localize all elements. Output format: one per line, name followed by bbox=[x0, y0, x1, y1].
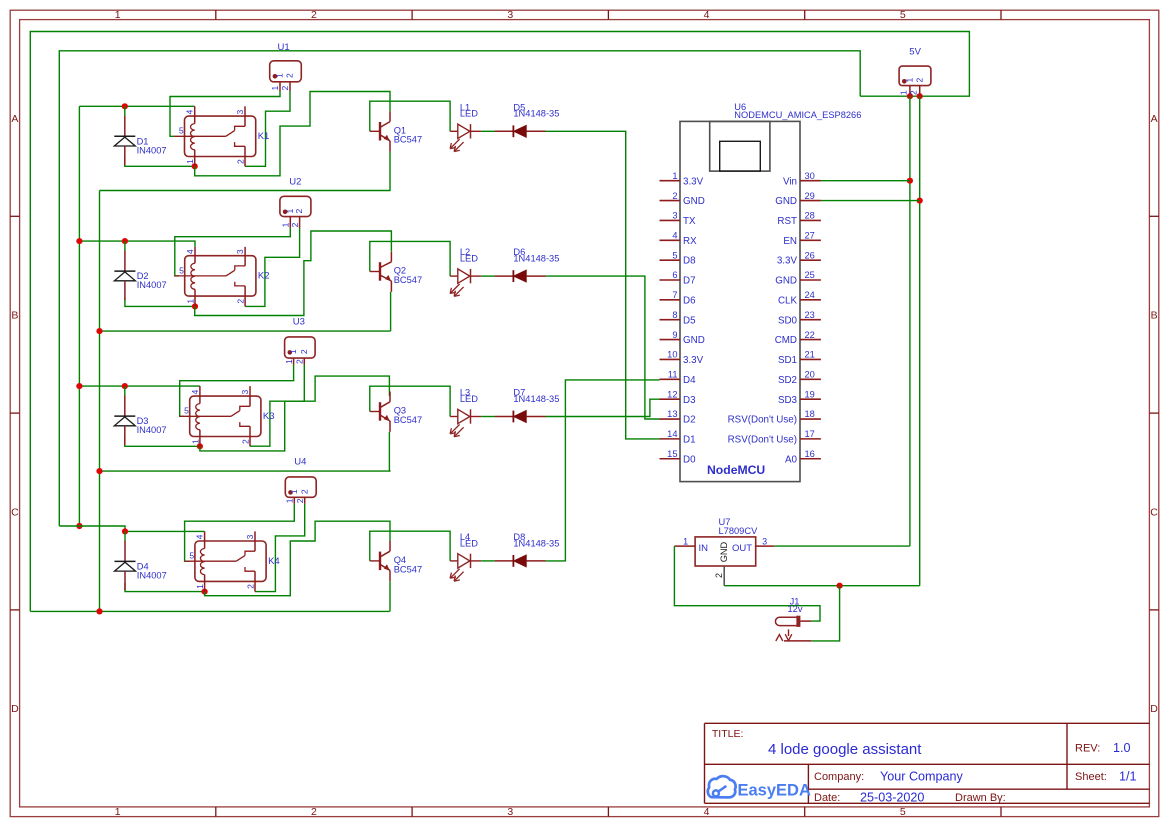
junction relay K1 pin1 bbox=[192, 163, 198, 169]
svg-text:SD3: SD3 bbox=[778, 395, 798, 406]
wire relay coil supply bus bbox=[78, 106, 80, 526]
svg-text:1: 1 bbox=[115, 9, 121, 21]
junction relay K2 pin1 bbox=[192, 303, 198, 309]
wire transistor Q4 base loop to LED L4 bbox=[370, 531, 450, 561]
wire LED L4 / diode D8 to NodeMCU bbox=[546, 380, 660, 561]
svg-text:U1: U1 bbox=[278, 42, 290, 53]
pin 1 IN bbox=[674, 545, 695, 547]
pin 8 D5 bbox=[660, 319, 681, 321]
relay K1 bbox=[174, 106, 269, 166]
svg-text:6: 6 bbox=[672, 270, 677, 280]
svg-text:RST: RST bbox=[777, 216, 797, 227]
svg-text:5: 5 bbox=[179, 265, 184, 275]
svg-text:8: 8 bbox=[672, 310, 677, 320]
svg-text:U3: U3 bbox=[293, 316, 305, 327]
wire diode D1 anode to relay pin1 bbox=[125, 158, 195, 166]
svg-text:B: B bbox=[1151, 310, 1158, 322]
svg-text:1: 1 bbox=[683, 536, 688, 546]
pin 25 GND bbox=[800, 279, 821, 281]
wire 5V upper rail to channel 1 bbox=[59, 51, 860, 526]
svg-text:15: 15 bbox=[667, 449, 677, 459]
junction diode D4 cathode bbox=[122, 528, 128, 534]
title block bbox=[705, 723, 1150, 804]
EasyEDA logo bbox=[708, 776, 811, 799]
svg-text:3: 3 bbox=[240, 390, 250, 395]
svg-text:K1: K1 bbox=[258, 131, 270, 142]
svg-text:RX: RX bbox=[683, 236, 697, 247]
junction coil bus channel 3 bbox=[76, 383, 82, 389]
svg-text:9: 9 bbox=[672, 330, 677, 340]
svg-text:2: 2 bbox=[914, 78, 924, 83]
svg-text:B: B bbox=[11, 310, 18, 322]
connector U1 bbox=[270, 42, 302, 91]
svg-text:10: 10 bbox=[667, 350, 677, 360]
pin 1 3.3V bbox=[660, 180, 681, 182]
svg-text:18: 18 bbox=[805, 409, 815, 419]
svg-text:5V: 5V bbox=[909, 46, 921, 57]
wire emitter return rail channel 1 bbox=[100, 190, 391, 192]
svg-text:1: 1 bbox=[195, 584, 205, 589]
svg-text:A: A bbox=[1151, 113, 1158, 125]
svg-text:D6: D6 bbox=[683, 295, 696, 306]
wire header U4 pin2 to relay K4 pin2 bbox=[255, 504, 305, 592]
IC U6 NODEMCU_AMICA_ESP8266 bbox=[660, 102, 862, 482]
wire transistor Q2 emitter down bbox=[390, 292, 392, 331]
svg-text:1: 1 bbox=[899, 90, 909, 95]
svg-text:4: 4 bbox=[195, 534, 205, 539]
svg-text:D8: D8 bbox=[683, 256, 696, 267]
svg-text:1N4148-35: 1N4148-35 bbox=[513, 394, 559, 404]
svg-text:4: 4 bbox=[704, 9, 710, 21]
wire relay K2 pin1 to transistor Q2 collector bbox=[195, 231, 392, 316]
svg-text:4: 4 bbox=[672, 230, 677, 240]
wire transistor Q3 base loop to LED L3 bbox=[370, 386, 450, 416]
wire header U2 pin1 to relay K2 pin5 bbox=[175, 228, 290, 276]
svg-text:2: 2 bbox=[299, 489, 309, 494]
pin 7 D6 bbox=[660, 299, 681, 301]
svg-text:RSV(Don't Use): RSV(Don't Use) bbox=[728, 415, 797, 426]
pin 18 RSV(Don't Use) bbox=[800, 418, 821, 420]
svg-text:12: 12 bbox=[667, 389, 677, 399]
svg-text:Vin: Vin bbox=[783, 176, 797, 187]
wire U7 OUT to 5V rail bbox=[774, 545, 910, 547]
junction relay K3 pin1 bbox=[197, 443, 203, 449]
svg-text:LED: LED bbox=[460, 538, 478, 548]
junction relay K4 pin1 bbox=[202, 589, 208, 595]
wire NodeMCU Vin pin30 bbox=[821, 180, 910, 182]
svg-text:2: 2 bbox=[290, 222, 300, 227]
svg-text:4: 4 bbox=[704, 806, 710, 818]
pin 2 GND bbox=[723, 566, 725, 586]
svg-text:28: 28 bbox=[805, 211, 815, 221]
wire header U1 pin2 to relay K1 pin2 bbox=[245, 91, 290, 166]
svg-text:1/1: 1/1 bbox=[1119, 770, 1137, 784]
LED L4 bbox=[450, 532, 495, 581]
svg-text:2: 2 bbox=[241, 439, 251, 444]
svg-text:1: 1 bbox=[284, 359, 294, 364]
pin 21 SD1 bbox=[800, 358, 821, 360]
svg-text:IN4007: IN4007 bbox=[137, 425, 167, 435]
pin 9 GND bbox=[660, 339, 681, 341]
svg-text:2: 2 bbox=[236, 159, 246, 164]
wire coil supply to relay K1 pin4 / diode D1 bbox=[79, 105, 194, 107]
svg-text:5: 5 bbox=[189, 551, 194, 561]
svg-text:D2: D2 bbox=[683, 415, 696, 426]
diode D3 IN4007 bbox=[114, 386, 166, 445]
pin 4 RX bbox=[660, 239, 681, 241]
svg-text:25-03-2020: 25-03-2020 bbox=[860, 790, 924, 804]
svg-text:NODEMCU_AMICA_ESP8266: NODEMCU_AMICA_ESP8266 bbox=[734, 110, 861, 120]
connector J1 12v barrel jack bbox=[775, 596, 811, 641]
svg-text:2: 2 bbox=[672, 191, 677, 201]
pin 11 D4 bbox=[660, 378, 681, 380]
svg-text:NodeMCU: NodeMCU bbox=[707, 463, 765, 477]
svg-text:D4: D4 bbox=[683, 375, 696, 386]
svg-text:1: 1 bbox=[270, 86, 280, 91]
transistor Q4 BC547 NPN bbox=[370, 541, 422, 581]
svg-text:4 lode google assistant: 4 lode google assistant bbox=[768, 741, 922, 758]
pin 19 SD3 bbox=[800, 398, 821, 400]
relay K2 bbox=[174, 247, 269, 307]
svg-text:5: 5 bbox=[179, 126, 184, 136]
svg-text:13: 13 bbox=[667, 409, 677, 419]
svg-text:5: 5 bbox=[184, 406, 189, 416]
svg-text:A: A bbox=[11, 113, 18, 125]
wire header U2 pin2 to relay K2 pin2 bbox=[245, 228, 300, 307]
connector U4 bbox=[285, 457, 317, 504]
wire header U4 pin1 to relay K4 pin5 bbox=[185, 504, 295, 561]
svg-text:3: 3 bbox=[507, 806, 513, 818]
diode D8 1N4148-35 bbox=[495, 532, 559, 567]
svg-text:16: 16 bbox=[805, 449, 815, 459]
wire U7 IN to J1 tip bbox=[674, 546, 820, 621]
pin 29 GND bbox=[800, 200, 821, 202]
pin 6 D7 bbox=[660, 279, 681, 281]
junction 5V header pin2 bbox=[917, 93, 923, 99]
svg-text:11: 11 bbox=[668, 370, 678, 380]
svg-text:1: 1 bbox=[288, 349, 298, 354]
diode D5 1N4148-35 bbox=[495, 102, 559, 137]
svg-text:19: 19 bbox=[805, 389, 815, 399]
wire relay K3 pin1 to transistor Q3 collector bbox=[200, 376, 390, 451]
svg-text:LED: LED bbox=[460, 394, 478, 404]
svg-text:SD2: SD2 bbox=[778, 375, 797, 386]
svg-text:CLK: CLK bbox=[778, 295, 798, 306]
wire coil supply to relay K4 pin4 / diode D4 bbox=[59, 526, 204, 531]
svg-text:K4: K4 bbox=[268, 556, 280, 567]
svg-text:1.0: 1.0 bbox=[1113, 741, 1131, 755]
svg-text:CMD: CMD bbox=[775, 335, 797, 346]
pin 12 D3 bbox=[660, 398, 681, 400]
svg-text:3: 3 bbox=[672, 211, 677, 221]
svg-text:29: 29 bbox=[805, 191, 815, 201]
svg-text:2: 2 bbox=[295, 359, 305, 364]
svg-text:Sheet:: Sheet: bbox=[1075, 771, 1107, 783]
svg-text:1: 1 bbox=[190, 439, 200, 444]
svg-text:2: 2 bbox=[285, 73, 295, 78]
svg-text:D3: D3 bbox=[683, 395, 696, 406]
svg-text:2: 2 bbox=[280, 86, 290, 91]
svg-text:IN4007: IN4007 bbox=[137, 570, 167, 580]
svg-text:U2: U2 bbox=[289, 177, 301, 188]
svg-text:17: 17 bbox=[805, 429, 815, 439]
svg-text:LED: LED bbox=[460, 254, 478, 264]
svg-text:12v: 12v bbox=[788, 604, 803, 614]
diode D1 IN4007 bbox=[114, 106, 166, 165]
junction GND pin29 bbox=[917, 198, 923, 204]
junction Vin bbox=[907, 178, 913, 184]
LED L1 bbox=[450, 102, 495, 151]
wire 5V to Vin and U7 OUT bbox=[909, 96, 911, 546]
pin 5 D8 bbox=[660, 259, 681, 261]
svg-text:Drawn By:: Drawn By: bbox=[955, 792, 1006, 804]
LED L2 bbox=[450, 247, 495, 296]
wire transistor Q3 emitter down bbox=[388, 432, 390, 471]
svg-text:GND: GND bbox=[719, 541, 729, 562]
svg-text:IN: IN bbox=[699, 543, 709, 554]
svg-text:5: 5 bbox=[672, 250, 677, 260]
svg-text:14: 14 bbox=[667, 429, 677, 439]
svg-text:BC547: BC547 bbox=[394, 415, 422, 425]
svg-text:TITLE:: TITLE: bbox=[712, 728, 744, 740]
junction ground bus / bottom rail bbox=[96, 608, 102, 614]
wire emitter return rail channel 3 bbox=[100, 470, 391, 472]
svg-text:RSV(Don't Use): RSV(Don't Use) bbox=[728, 434, 797, 445]
pin 10 3.3V bbox=[660, 358, 681, 360]
svg-text:OUT: OUT bbox=[732, 543, 752, 554]
transistor Q1 BC547 NPN bbox=[370, 111, 422, 151]
wire coil supply to relay K3 pin4 / diode D3 bbox=[79, 385, 199, 387]
svg-text:K2: K2 bbox=[258, 271, 270, 282]
junction diode D2 cathode bbox=[122, 238, 128, 244]
junction U7 GND / J1 sleeve bbox=[837, 583, 843, 589]
pin 2 GND bbox=[660, 200, 681, 202]
svg-text:20: 20 bbox=[805, 370, 815, 380]
svg-text:EN: EN bbox=[783, 236, 797, 247]
svg-text:3: 3 bbox=[235, 249, 245, 254]
svg-text:2: 2 bbox=[311, 806, 317, 818]
svg-text:D0: D0 bbox=[683, 454, 696, 465]
LED L3 bbox=[450, 388, 495, 437]
junction emitter rail channel 3 bbox=[96, 468, 102, 474]
junction diode D1 cathode bbox=[122, 103, 128, 109]
wire header U1 pin1 to relay K1 pin5 bbox=[170, 91, 280, 136]
svg-text:A0: A0 bbox=[785, 454, 798, 465]
svg-text:27: 27 bbox=[805, 230, 815, 240]
svg-text:1: 1 bbox=[185, 159, 195, 164]
wire 5V top loop bbox=[30, 32, 969, 612]
pin 26 3.3V bbox=[800, 259, 821, 261]
svg-text:26: 26 bbox=[805, 250, 815, 260]
svg-text:1N4148-35: 1N4148-35 bbox=[513, 538, 559, 548]
svg-text:5: 5 bbox=[900, 806, 906, 818]
wire J1 sleeve to ground junction bbox=[811, 586, 839, 641]
junction coil bus channel 2 bbox=[76, 238, 82, 244]
svg-text:30: 30 bbox=[805, 171, 815, 181]
wire LED L1 / diode D5 to NodeMCU bbox=[546, 131, 660, 439]
svg-text:C: C bbox=[1150, 506, 1158, 518]
svg-text:22: 22 bbox=[805, 330, 815, 340]
wire transistor Q2 base loop to LED L2 bbox=[370, 241, 450, 276]
connector U2 bbox=[280, 177, 311, 228]
svg-text:D7: D7 bbox=[683, 276, 696, 287]
svg-text:1: 1 bbox=[905, 78, 915, 83]
wire diode D2 anode to relay pin1 bbox=[125, 298, 195, 306]
svg-text:3.3V: 3.3V bbox=[777, 256, 798, 267]
wire diode D3 anode to relay pin1 bbox=[125, 438, 200, 446]
svg-text:1N4148-35: 1N4148-35 bbox=[513, 109, 559, 119]
svg-text:TX: TX bbox=[683, 216, 696, 227]
svg-text:2: 2 bbox=[295, 498, 305, 503]
svg-text:5: 5 bbox=[900, 9, 906, 21]
svg-text:LED: LED bbox=[460, 109, 478, 119]
svg-text:3: 3 bbox=[507, 9, 513, 21]
wire transistor Q4 emitter down bbox=[389, 581, 391, 611]
svg-text:24: 24 bbox=[805, 290, 815, 300]
transistor Q3 BC547 NPN bbox=[370, 392, 422, 432]
wire diode D4 anode to relay pin1 bbox=[125, 583, 205, 592]
transistor Q2 BC547 NPN bbox=[370, 252, 422, 292]
svg-text:3.3V: 3.3V bbox=[683, 176, 704, 187]
svg-text:1: 1 bbox=[115, 806, 121, 818]
svg-text:L7809CV: L7809CV bbox=[719, 526, 759, 536]
wire transistor Q1 base loop to LED L1 bbox=[370, 101, 450, 131]
svg-text:2: 2 bbox=[236, 299, 246, 304]
svg-text:REV:: REV: bbox=[1075, 743, 1100, 755]
wire NodeMCU GND pin29 bbox=[821, 200, 920, 202]
pin 22 CMD bbox=[800, 339, 821, 341]
svg-text:2: 2 bbox=[294, 209, 304, 214]
svg-text:D: D bbox=[1150, 703, 1158, 715]
pin 23 SD0 bbox=[800, 319, 821, 321]
svg-text:EasyEDA: EasyEDA bbox=[738, 782, 811, 800]
regulator U7 L7809CV bbox=[674, 517, 774, 586]
svg-text:GND: GND bbox=[775, 196, 797, 207]
svg-text:GND: GND bbox=[775, 276, 797, 287]
pin 17 RSV(Don't Use) bbox=[800, 438, 821, 440]
svg-text:SD0: SD0 bbox=[778, 315, 798, 326]
svg-text:3: 3 bbox=[235, 110, 245, 115]
relay K3 bbox=[179, 386, 274, 446]
svg-text:2: 2 bbox=[311, 9, 317, 21]
pin 24 CLK bbox=[800, 299, 821, 301]
svg-text:U4: U4 bbox=[294, 457, 306, 468]
connector U3 bbox=[284, 316, 315, 364]
svg-text:IN4007: IN4007 bbox=[137, 145, 167, 155]
svg-text:3: 3 bbox=[762, 536, 767, 546]
svg-text:IN4007: IN4007 bbox=[137, 280, 167, 290]
svg-text:Company:: Company: bbox=[814, 771, 864, 783]
pin 28 RST bbox=[800, 219, 821, 221]
wire U7 GND to ground rail bbox=[724, 585, 920, 587]
wire emitter ground bus bbox=[99, 191, 101, 612]
svg-text:2: 2 bbox=[909, 90, 919, 95]
diode D6 1N4148-35 bbox=[495, 247, 559, 282]
svg-text:D1: D1 bbox=[683, 434, 696, 445]
connector 5V header bbox=[899, 46, 931, 96]
wire LED L2 / diode D6 to NodeMCU bbox=[546, 276, 660, 419]
svg-text:3: 3 bbox=[245, 534, 255, 539]
svg-text:4: 4 bbox=[185, 249, 195, 254]
svg-text:BC547: BC547 bbox=[394, 135, 422, 145]
diode D2 IN4007 bbox=[114, 241, 166, 300]
svg-text:BC547: BC547 bbox=[394, 564, 422, 574]
junction emitter rail channel 2 bbox=[96, 328, 102, 334]
svg-text:1: 1 bbox=[186, 299, 196, 304]
wire header U3 pin1 to relay K3 pin5 bbox=[180, 365, 294, 417]
svg-text:C: C bbox=[11, 506, 19, 518]
svg-text:1: 1 bbox=[672, 171, 677, 181]
pin 16 A0 bbox=[800, 458, 821, 460]
svg-text:7: 7 bbox=[672, 290, 677, 300]
relay K4 bbox=[185, 531, 280, 591]
svg-text:23: 23 bbox=[805, 310, 815, 320]
svg-text:1N4148-35: 1N4148-35 bbox=[513, 254, 559, 264]
svg-text:Your Company: Your Company bbox=[880, 770, 964, 784]
svg-text:25: 25 bbox=[805, 270, 815, 280]
svg-text:D5: D5 bbox=[683, 315, 696, 326]
svg-text:1: 1 bbox=[285, 498, 295, 503]
svg-text:2: 2 bbox=[246, 584, 256, 589]
junction coil bus / 5V rail bbox=[76, 523, 82, 529]
wire relay K1 pin1 to transistor Q1 collector bbox=[195, 92, 390, 176]
svg-text:GND: GND bbox=[683, 196, 705, 207]
pin 3 TX bbox=[660, 219, 681, 221]
wire emitter return rail channel 2 bbox=[100, 330, 391, 332]
wire relay K4 pin1 to transistor Q4 collector bbox=[205, 521, 390, 596]
pin 30 Vin bbox=[800, 180, 821, 182]
wire header U3 pin2 to relay K3 pin2 bbox=[250, 365, 304, 447]
svg-text:2: 2 bbox=[299, 349, 309, 354]
wire GND to U7 pin2 bbox=[919, 96, 921, 586]
wire coil supply to relay K2 pin4 / diode D2 bbox=[79, 241, 195, 247]
wire bottom emitter rail bbox=[30, 610, 389, 612]
svg-text:D: D bbox=[11, 703, 19, 715]
pin 13 D2 bbox=[660, 418, 681, 420]
pin 14 D1 bbox=[660, 438, 681, 440]
junction 5V header pin1 bbox=[907, 93, 913, 99]
svg-text:1: 1 bbox=[289, 489, 299, 494]
svg-text:3.3V: 3.3V bbox=[683, 355, 704, 366]
svg-text:SD1: SD1 bbox=[778, 355, 797, 366]
svg-text:21: 21 bbox=[805, 350, 815, 360]
svg-text:GND: GND bbox=[683, 335, 705, 346]
wire transistor Q1 emitter down bbox=[389, 152, 391, 191]
wire LED L3 / diode D7 to NodeMCU bbox=[546, 399, 660, 416]
svg-text:K3: K3 bbox=[263, 411, 275, 422]
diode D7 1N4148-35 bbox=[495, 388, 559, 423]
svg-text:2: 2 bbox=[714, 573, 724, 578]
junction diode D3 cathode bbox=[122, 383, 128, 389]
pin 15 D0 bbox=[660, 458, 681, 460]
pin 20 SD2 bbox=[800, 378, 821, 380]
svg-text:BC547: BC547 bbox=[394, 275, 422, 285]
diode D4 IN4007 bbox=[115, 531, 167, 590]
svg-text:1: 1 bbox=[275, 73, 285, 78]
svg-text:4: 4 bbox=[185, 110, 195, 115]
pin 27 EN bbox=[800, 239, 821, 241]
pin 3 OUT bbox=[756, 545, 775, 547]
svg-text:Date:: Date: bbox=[814, 792, 840, 804]
svg-text:4: 4 bbox=[190, 390, 200, 395]
